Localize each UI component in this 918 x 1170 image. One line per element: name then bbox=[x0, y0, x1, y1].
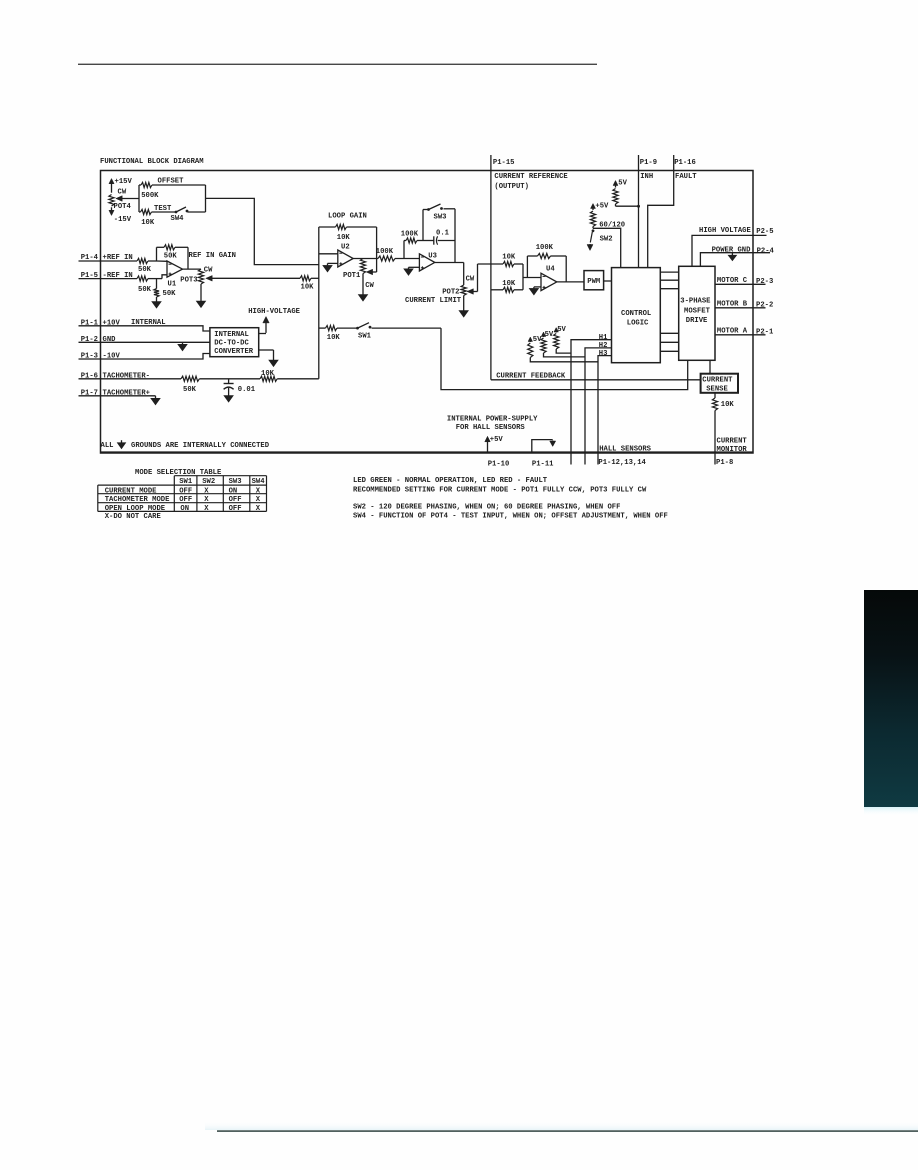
svg-text:CONVERTER: CONVERTER bbox=[214, 348, 254, 356]
svg-text:+5V: +5V bbox=[595, 203, 609, 211]
svg-text:X: X bbox=[256, 496, 261, 504]
svg-text:P2-3: P2-3 bbox=[756, 278, 773, 286]
svg-text:500K: 500K bbox=[141, 192, 159, 200]
block PWM bbox=[584, 271, 604, 290]
svg-text:50K: 50K bbox=[164, 253, 178, 261]
table grid bbox=[174, 475, 266, 477]
svg-text:DRIVE: DRIVE bbox=[686, 317, 708, 325]
wire P1-1 bbox=[79, 326, 210, 331]
ground on P1-2 wire bbox=[182, 342, 184, 344]
resistor 10K upper bbox=[478, 263, 504, 265]
svg-text:INTERNAL: INTERNAL bbox=[214, 331, 249, 339]
top horizontal rule bbox=[78, 64, 597, 65]
wire MOTOR A P2-1 bbox=[715, 334, 766, 336]
high-voltage output arrow bbox=[259, 333, 266, 335]
svg-text:10K: 10K bbox=[327, 334, 341, 342]
resistor 10K monitor bbox=[714, 393, 716, 398]
svg-text:FOR HALL SENSORS: FOR HALL SENSORS bbox=[456, 424, 526, 432]
resistor 10K pot3 line bbox=[300, 276, 311, 281]
svg-text:10K: 10K bbox=[502, 280, 516, 288]
wire U2 minus input bbox=[319, 253, 338, 255]
svg-text:H2: H2 bbox=[599, 342, 608, 350]
svg-text:FAULT: FAULT bbox=[675, 173, 697, 181]
op-amp U3 bbox=[419, 254, 434, 271]
wire U4 fb verticals bbox=[526, 256, 528, 278]
svg-text:P2-5: P2-5 bbox=[756, 228, 773, 236]
svg-text:ON: ON bbox=[180, 505, 189, 513]
svg-text:CURRENT FEEDBACK: CURRENT FEEDBACK bbox=[496, 373, 566, 381]
svg-text:CURRENT REFERENCE: CURRENT REFERENCE bbox=[494, 173, 568, 181]
node +15V supply bbox=[111, 183, 113, 193]
pin P1-16 FAULT bbox=[648, 155, 674, 268]
wire into U1 plus bbox=[162, 275, 167, 279]
svg-text:X: X bbox=[204, 496, 209, 504]
POT4 wiper arrow bbox=[121, 198, 139, 200]
svg-text:10K: 10K bbox=[721, 401, 735, 409]
wire P1-7 to ground bbox=[79, 395, 156, 397]
pin P1-10 +5V bbox=[487, 441, 489, 452]
svg-text:PWM: PWM bbox=[587, 278, 600, 286]
svg-text:5V: 5V bbox=[545, 331, 554, 339]
svg-text:SW2: SW2 bbox=[600, 235, 613, 243]
svg-text:ALL: ALL bbox=[101, 442, 114, 450]
op-amp U2 bbox=[338, 250, 353, 267]
wire U3 output bbox=[435, 262, 464, 264]
svg-text:CW: CW bbox=[365, 282, 374, 290]
ground below POT1 bbox=[362, 274, 364, 295]
wire H2 bbox=[585, 348, 612, 465]
capacitor 0.1 bbox=[432, 240, 434, 242]
svg-text:TACHOMETER MODE: TACHOMETER MODE bbox=[105, 496, 170, 504]
svg-text:HIGH-VOLTAGE: HIGH-VOLTAGE bbox=[248, 308, 300, 316]
svg-text:CW: CW bbox=[466, 275, 475, 283]
svg-text:X: X bbox=[256, 505, 261, 513]
svg-text:CURRENT LIMIT: CURRENT LIMIT bbox=[405, 297, 462, 305]
wire into U1 minus bbox=[157, 260, 168, 262]
svg-text:OPEN LOOP MODE: OPEN LOOP MODE bbox=[105, 505, 166, 513]
wire P1-5 input bbox=[79, 278, 138, 280]
resistor 50K plus input bbox=[137, 258, 148, 263]
svg-text:POT3: POT3 bbox=[180, 276, 197, 284]
svg-text:X: X bbox=[256, 487, 261, 495]
ground U4 plus input bbox=[534, 286, 541, 288]
svg-text:+5V: +5V bbox=[490, 436, 504, 444]
svg-text:10K: 10K bbox=[301, 284, 315, 292]
block CONTROL LOGIC bbox=[612, 268, 661, 363]
svg-text:SW4: SW4 bbox=[171, 215, 185, 223]
wire H1 bbox=[571, 340, 612, 465]
wire loop right vertical bbox=[376, 227, 378, 272]
svg-text:5V: 5V bbox=[557, 326, 566, 334]
svg-text:100K: 100K bbox=[401, 231, 419, 239]
svg-text:X: X bbox=[204, 487, 209, 495]
svg-text:SW4 - FUNCTION OF POT4 - TEST: SW4 - FUNCTION OF POT4 - TEST INPUT, WHE… bbox=[353, 513, 668, 521]
svg-text:P1-16: P1-16 bbox=[674, 159, 696, 167]
svg-text:CONTROL: CONTROL bbox=[621, 310, 651, 318]
wire P1-2 bbox=[79, 341, 210, 343]
svg-text:P2-1: P2-1 bbox=[756, 329, 774, 337]
wire U4 summing node bbox=[522, 264, 524, 278]
wire U2 node vertical bbox=[318, 227, 320, 379]
resistor 10K loop feedback bbox=[319, 226, 336, 228]
switch SW4 bbox=[175, 211, 178, 214]
switch SW1 bbox=[356, 327, 359, 330]
svg-text:U2: U2 bbox=[341, 243, 350, 251]
svg-text:GROUNDS ARE INTERNALLY CONNECT: GROUNDS ARE INTERNALLY CONNECTED bbox=[131, 442, 270, 450]
POT3 wiper arrow bbox=[211, 277, 300, 279]
wire PWM to control logic bbox=[604, 280, 612, 282]
svg-text:RECOMMENDED SETTING FOR CURREN: RECOMMENDED SETTING FOR CURRENT MODE - P… bbox=[353, 486, 647, 494]
wire offset network left bbox=[138, 185, 140, 212]
svg-text:10K: 10K bbox=[261, 370, 275, 378]
svg-text:-15V: -15V bbox=[114, 216, 132, 224]
resistor 10K tach bbox=[260, 376, 277, 381]
svg-text:HIGH VOLTAGE: HIGH VOLTAGE bbox=[699, 227, 751, 235]
wire U4 output bbox=[557, 281, 584, 283]
wire 60/120 to logic bbox=[593, 228, 621, 267]
svg-text:60/120: 60/120 bbox=[599, 222, 625, 230]
junction dot INH bbox=[637, 205, 640, 208]
wire offset output bbox=[206, 198, 319, 264]
svg-text:5V: 5V bbox=[618, 180, 627, 188]
wire SW3 loop right bbox=[454, 209, 456, 263]
switch SW3 bbox=[423, 209, 428, 211]
wire U1 output bbox=[183, 268, 202, 270]
svg-text:POT1: POT1 bbox=[343, 272, 361, 280]
svg-text:P1-8: P1-8 bbox=[716, 459, 733, 467]
wire U3 fb node bbox=[403, 241, 405, 259]
svg-text:SW1: SW1 bbox=[179, 478, 193, 486]
svg-text:P1-12,13,14: P1-12,13,14 bbox=[598, 459, 646, 467]
svg-text:DC-TO-DC: DC-TO-DC bbox=[214, 340, 249, 348]
resistor 500K bbox=[139, 184, 141, 186]
svg-text:OFF: OFF bbox=[229, 505, 242, 513]
svg-text:OFF: OFF bbox=[229, 496, 242, 504]
ground on power gnd bbox=[731, 253, 733, 256]
wire SW3 loop left bbox=[422, 210, 424, 241]
svg-text:0.01: 0.01 bbox=[238, 386, 256, 394]
svg-text:CURRENT: CURRENT bbox=[702, 377, 733, 385]
svg-text:LOOP GAIN: LOOP GAIN bbox=[328, 213, 367, 221]
wire feedback to output bbox=[187, 247, 189, 269]
svg-text:P2-4: P2-4 bbox=[757, 248, 775, 256]
svg-text:P1-15: P1-15 bbox=[493, 159, 515, 167]
potentiometer POT3 bbox=[198, 269, 203, 284]
wire U2 output bbox=[353, 258, 378, 260]
wire tachometer bbox=[79, 378, 182, 380]
svg-text:+15V: +15V bbox=[115, 178, 133, 186]
svg-text:CW: CW bbox=[118, 189, 127, 197]
svg-text:U1: U1 bbox=[168, 280, 177, 288]
svg-text:U4: U4 bbox=[546, 265, 555, 273]
wire SW1 return bbox=[441, 328, 688, 390]
ground U3 plus input bbox=[409, 266, 420, 268]
right gradient sidebar bbox=[864, 590, 918, 807]
pin P1-15 bbox=[490, 155, 492, 380]
svg-text:OFF: OFF bbox=[179, 496, 192, 504]
svg-text:LOGIC: LOGIC bbox=[627, 320, 649, 328]
wire MOTOR B P2-2 bbox=[715, 307, 766, 309]
svg-text:50K: 50K bbox=[138, 286, 152, 294]
pin P1-11 bbox=[532, 440, 553, 453]
svg-text:LED GREEN - NORMAL OPERATION,: LED GREEN - NORMAL OPERATION, LED RED - … bbox=[353, 477, 548, 485]
svg-text:0.1: 0.1 bbox=[436, 230, 450, 238]
wire H3 bbox=[598, 356, 612, 465]
svg-text:SENSE: SENSE bbox=[706, 386, 728, 394]
ground below 0.01 bbox=[228, 394, 230, 396]
svg-text:SW2 - 120 DEGREE PHASING, WHEN: SW2 - 120 DEGREE PHASING, WHEN ON; 60 DE… bbox=[353, 503, 620, 511]
svg-text:10K: 10K bbox=[141, 219, 155, 227]
svg-text:P1-10: P1-10 bbox=[488, 460, 510, 468]
POT2 wiper arrow bbox=[472, 291, 477, 293]
wire HIGH VOLTAGE P2-5 bbox=[692, 235, 767, 266]
switch SW2 bbox=[592, 229, 595, 232]
resistor 100K U4 feedback bbox=[527, 255, 537, 257]
svg-text:FUNCTIONAL BLOCK DIAGRAM: FUNCTIONAL BLOCK DIAGRAM bbox=[100, 158, 204, 166]
resistor 50K feedback bbox=[156, 247, 158, 261]
svg-text:U3: U3 bbox=[428, 252, 437, 260]
svg-text:H1: H1 bbox=[599, 334, 608, 342]
wire offset network right bbox=[205, 185, 207, 212]
svg-text:CURRENT MODE: CURRENT MODE bbox=[105, 487, 157, 495]
capacitor 0.01 bbox=[228, 379, 230, 384]
svg-text:REF IN GAIN: REF IN GAIN bbox=[189, 252, 236, 260]
svg-text:SW3: SW3 bbox=[434, 213, 447, 221]
svg-text:POWER GND: POWER GND bbox=[712, 246, 752, 254]
svg-text:100K: 100K bbox=[536, 244, 554, 252]
ground below POT3 bbox=[200, 284, 202, 301]
schematic border frame bbox=[101, 171, 754, 454]
ground below POT2 bbox=[463, 296, 465, 311]
wire MOTOR C P2-3 bbox=[715, 283, 766, 285]
svg-text:10K: 10K bbox=[337, 234, 351, 242]
svg-text:OFFSET: OFFSET bbox=[158, 178, 185, 186]
svg-text:SW3: SW3 bbox=[229, 478, 242, 486]
svg-text:MONITOR: MONITOR bbox=[717, 446, 748, 454]
svg-text:X-DO NOT CARE: X-DO NOT CARE bbox=[105, 513, 162, 521]
svg-text:SW4: SW4 bbox=[252, 478, 266, 486]
potentiometer POT1 bbox=[360, 259, 365, 274]
ground U2 plus input bbox=[328, 262, 338, 264]
wire drive to current sense bbox=[709, 360, 711, 373]
wire P1-3 bbox=[79, 354, 210, 360]
svg-text:P2-2: P2-2 bbox=[756, 302, 773, 310]
potentiometer POT4 bbox=[109, 195, 114, 206]
wire current feedback bbox=[491, 379, 701, 381]
svg-text:H3: H3 bbox=[599, 350, 608, 358]
resistor 50K minus input bbox=[137, 276, 148, 281]
svg-text:10K: 10K bbox=[502, 253, 516, 261]
svg-text:MOTOR C: MOTOR C bbox=[717, 277, 748, 285]
resistor 10K test bbox=[139, 211, 141, 213]
svg-text:POT4: POT4 bbox=[114, 203, 132, 211]
svg-text:CW: CW bbox=[204, 267, 213, 275]
wires logic to drive bbox=[660, 271, 678, 273]
resistor 10K SW1 bbox=[319, 327, 326, 329]
svg-text:INTERNAL POWER-SUPPLY: INTERNAL POWER-SUPPLY bbox=[447, 415, 538, 423]
svg-text:HALL SENSORS: HALL SENSORS bbox=[599, 446, 651, 454]
svg-text:50K: 50K bbox=[163, 290, 177, 298]
block CURRENT SENSE bbox=[701, 374, 738, 393]
op-amp U4 bbox=[541, 273, 557, 290]
wire POWER GND P2-4 bbox=[700, 253, 770, 267]
svg-text:P1-11: P1-11 bbox=[532, 460, 554, 468]
potentiometer POT2 bbox=[463, 263, 465, 286]
svg-text:(OUTPUT): (OUTPUT) bbox=[494, 183, 529, 191]
pin P1-9 INH bbox=[638, 155, 640, 268]
svg-text:50K: 50K bbox=[138, 266, 152, 274]
svg-text:MOTOR A: MOTOR A bbox=[717, 328, 748, 336]
wire P1-4 input bbox=[79, 260, 138, 262]
svg-text:POT2: POT2 bbox=[442, 289, 459, 297]
resistor 50K tach bbox=[181, 376, 199, 381]
resistor 10K lower bbox=[491, 289, 503, 291]
svg-text:100K: 100K bbox=[376, 248, 394, 256]
svg-text:ON: ON bbox=[229, 487, 238, 495]
resistor 100K to U3 bbox=[378, 256, 395, 261]
svg-text:TEST: TEST bbox=[154, 205, 172, 213]
resistor 100K U3 feedback bbox=[404, 240, 406, 242]
block 3-PHASE MOSFET DRIVE bbox=[679, 266, 715, 360]
bottom horizontal rule bbox=[205, 1121, 918, 1130]
POT1 wiper arrow bbox=[372, 271, 377, 273]
svg-text:OFF: OFF bbox=[179, 487, 192, 495]
svg-text:P1-9: P1-9 bbox=[640, 159, 657, 167]
converter ground output bbox=[259, 349, 274, 351]
op-amp U1 bbox=[167, 261, 183, 277]
svg-text:INH: INH bbox=[640, 173, 653, 181]
ground below 50K bbox=[156, 297, 158, 302]
svg-text:CURRENT: CURRENT bbox=[717, 437, 748, 445]
svg-text:MOSFET: MOSFET bbox=[684, 307, 711, 315]
block INTERNAL DC-TO-DC CONVERTER bbox=[210, 328, 259, 357]
node -15V supply bbox=[111, 207, 113, 211]
svg-text:SW2: SW2 bbox=[202, 478, 215, 486]
svg-text:3-PHASE: 3-PHASE bbox=[680, 298, 711, 306]
svg-text:SW1: SW1 bbox=[358, 333, 372, 341]
svg-text:MOTOR B: MOTOR B bbox=[717, 301, 748, 309]
resistor 50K to ground bbox=[156, 279, 158, 289]
svg-text:X: X bbox=[204, 505, 209, 513]
svg-text:50K: 50K bbox=[183, 386, 197, 394]
